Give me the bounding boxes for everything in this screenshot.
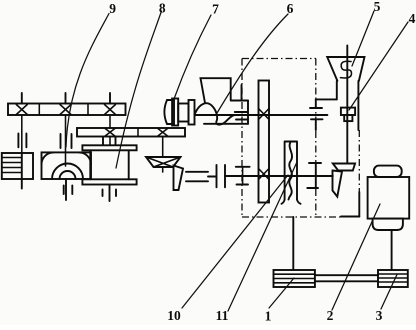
svg-text:5: 5 bbox=[374, 0, 381, 14]
svg-text:8: 8 bbox=[159, 1, 166, 16]
svg-text:9: 9 bbox=[109, 1, 116, 16]
svg-text:11: 11 bbox=[216, 308, 229, 323]
svg-text:10: 10 bbox=[167, 308, 181, 323]
svg-text:7: 7 bbox=[212, 2, 219, 17]
svg-text:2: 2 bbox=[327, 308, 334, 323]
svg-text:4: 4 bbox=[409, 11, 416, 26]
svg-text:1: 1 bbox=[265, 309, 272, 324]
svg-text:3: 3 bbox=[376, 308, 383, 323]
svg-text:6: 6 bbox=[287, 1, 294, 16]
